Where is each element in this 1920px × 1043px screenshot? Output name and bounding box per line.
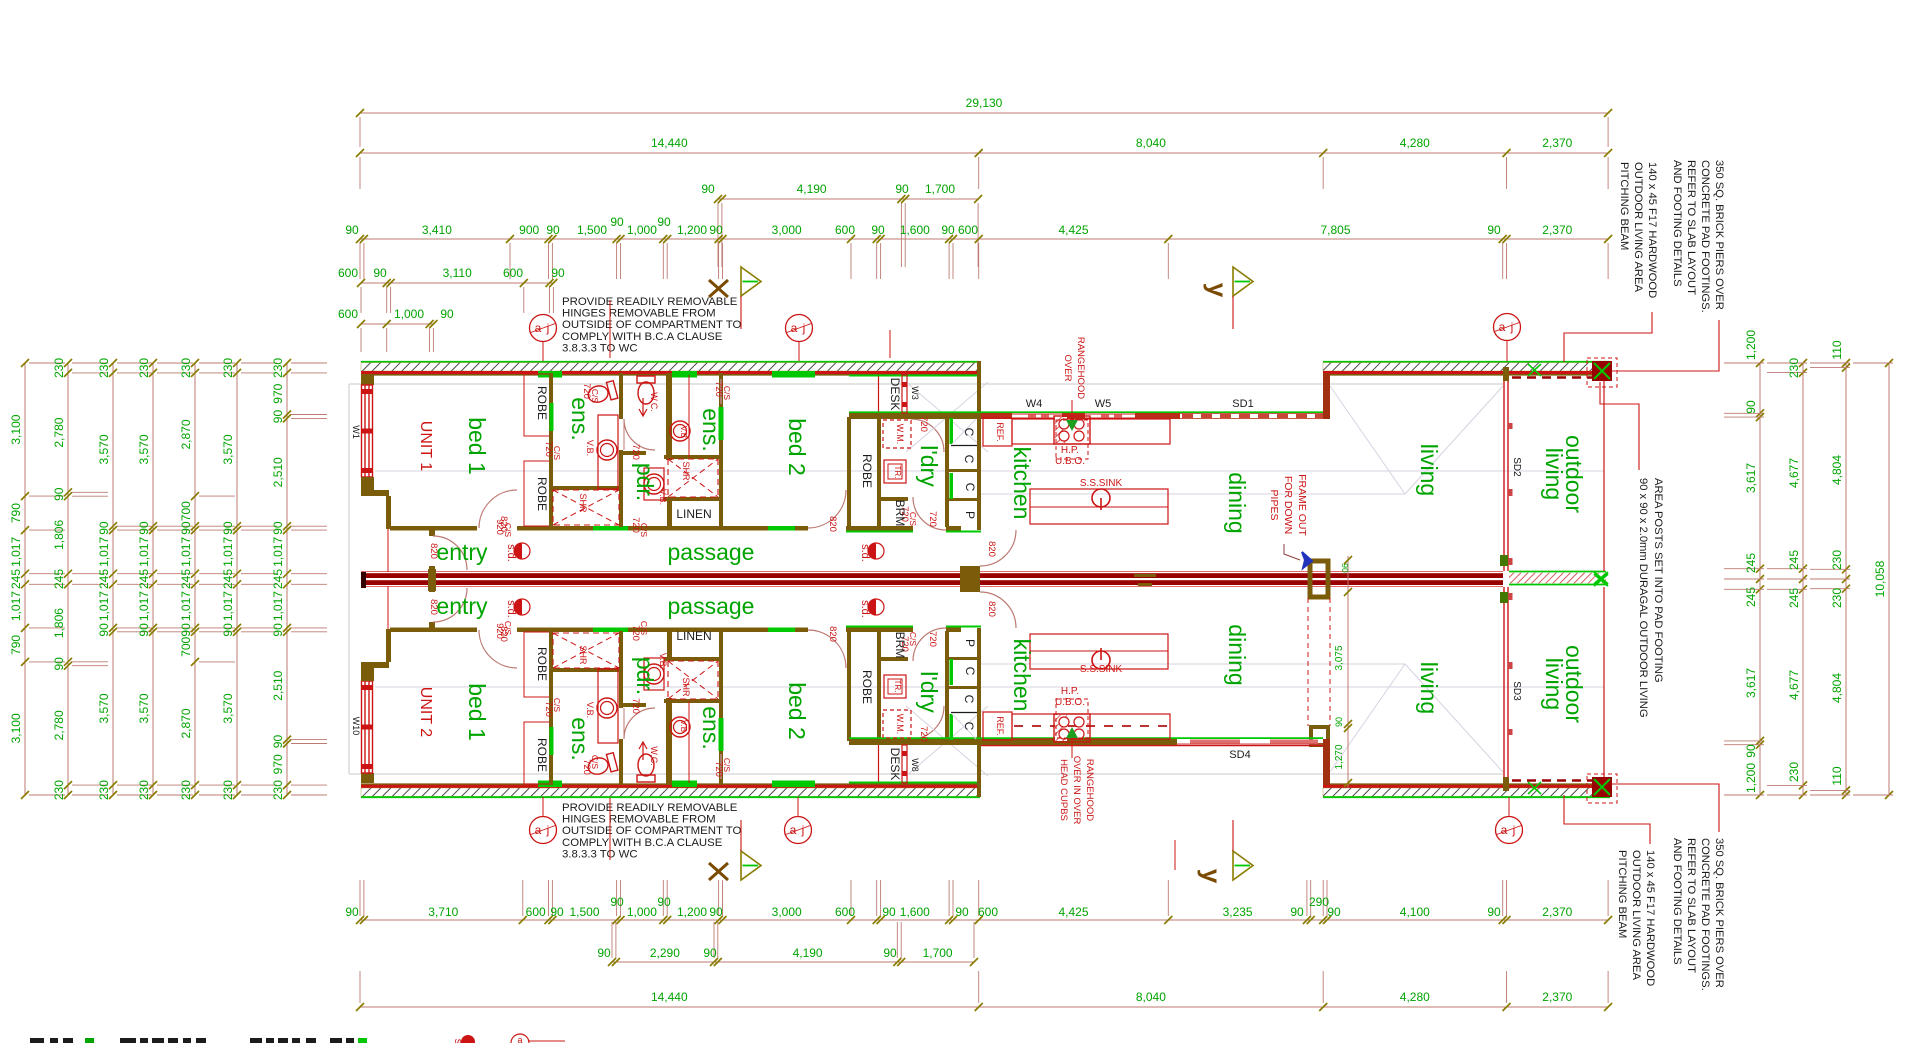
svg-text:4,100: 4,100	[1400, 905, 1430, 919]
living corner wall	[1323, 373, 1330, 419]
top exterior wall living/outdoor section	[1323, 362, 1610, 375]
section flag top X	[741, 267, 761, 296]
svg-text:600: 600	[526, 905, 546, 919]
svg-text:HINGES REMOVABLE FROM: HINGES REMOVABLE FROM	[562, 814, 716, 826]
passage wall seg1	[517, 526, 808, 531]
wall shr2 top (unit2)	[664, 699, 722, 703]
shower ens1	[553, 490, 619, 525]
cooktop (unit2)	[1054, 714, 1090, 742]
toilet ens1	[586, 384, 609, 405]
svg-text:UNIT 2: UNIT 2	[417, 687, 434, 737]
basin pdr (unit2)	[644, 664, 664, 684]
svg-text:s.d.: s.d.	[859, 544, 871, 562]
svg-text:90: 90	[546, 223, 560, 237]
svg-text:3,235: 3,235	[1223, 905, 1253, 919]
kitchen north wall	[849, 412, 1330, 419]
passage wall seg0	[390, 526, 477, 531]
svg-text:600: 600	[503, 266, 523, 280]
svg-text:90: 90	[345, 223, 359, 237]
robe1 lower box (unit2)	[524, 632, 552, 697]
svg-text:l'dry: l'dry	[916, 671, 942, 713]
window bar bottom wall A	[538, 781, 562, 788]
svg-text:90: 90	[221, 623, 235, 637]
svg-text:V.B.: V.B.	[585, 702, 595, 718]
svg-text:90: 90	[271, 410, 285, 424]
passage wall green bar A	[593, 526, 628, 531]
entry threshold	[387, 529, 389, 572]
leader 350SQ top	[1612, 320, 1719, 371]
svg-text:OVER: OVER	[1062, 355, 1073, 382]
rangehood dashed	[1056, 420, 1088, 459]
desk left edge (unit2)	[878, 745, 880, 784]
vanity counter pdr	[644, 468, 664, 500]
svg-text:1,200: 1,200	[1744, 330, 1758, 360]
svg-text:3,570: 3,570	[137, 693, 151, 723]
entry door arc (unit2)	[433, 588, 467, 622]
svg-text:790: 790	[9, 635, 23, 655]
window bar bottom wall B	[672, 781, 697, 788]
svg-text:V.B: V.B	[679, 426, 688, 438]
svg-text:245: 245	[1744, 587, 1758, 607]
svg-text:14,440: 14,440	[651, 136, 688, 150]
passage wall green bar B	[768, 526, 795, 531]
svg-text:3,710: 3,710	[428, 905, 458, 919]
shower ens2	[668, 459, 718, 497]
trough TR (unit2)	[884, 675, 906, 698]
svg-text:8,040: 8,040	[1136, 136, 1166, 150]
svg-text:290: 290	[1309, 895, 1329, 909]
svg-text:TR.: TR.	[893, 680, 902, 693]
wall shr1 top	[549, 486, 623, 490]
cupb thin divider (unit2)	[951, 712, 977, 714]
wall wc/ens2	[666, 373, 672, 460]
svg-text:C/S: C/S	[908, 512, 918, 527]
entry door jambs (unit2)	[429, 622, 435, 629]
svg-text:1,600: 1,600	[900, 905, 930, 919]
dim row 600/90/3,110/600/90	[338, 266, 565, 313]
wall cupb divider2	[949, 498, 981, 501]
svg-text:ROBE: ROBE	[535, 647, 549, 681]
svg-text:1,200: 1,200	[677, 905, 707, 919]
right dim col 1	[1724, 330, 1764, 799]
svg-text:90: 90	[1334, 717, 1344, 727]
svg-text:1,017: 1,017	[271, 537, 285, 567]
svg-text:COMPLY WITH B.C.A CLAUSE: COMPLY WITH B.C.A CLAUSE	[562, 331, 723, 343]
svg-text:1,017: 1,017	[9, 537, 23, 567]
entry door arc	[433, 536, 467, 570]
svg-text:230: 230	[1787, 762, 1801, 782]
svg-text:C/S: C/S	[552, 446, 562, 461]
svg-text:90: 90	[52, 487, 66, 501]
shower ens2 (unit2)	[668, 661, 718, 699]
svg-text:REF.: REF.	[995, 716, 1005, 736]
passage wall seg1 (unit2)	[517, 628, 808, 633]
sink	[1092, 489, 1110, 507]
svg-text:4,425: 4,425	[1058, 905, 1088, 919]
band green inner line desk	[849, 375, 980, 377]
svg-text:245: 245	[179, 569, 193, 589]
svg-text:90: 90	[882, 905, 896, 919]
svg-text:a: a	[517, 1035, 522, 1043]
rangehood leader	[1071, 400, 1073, 424]
left exterior wall lower (unit2)	[361, 662, 374, 681]
svg-text:PROVIDE READILY REMOVABLE: PROVIDE READILY REMOVABLE	[562, 296, 738, 308]
bed2 door arc (unit2)	[808, 630, 846, 668]
svg-text:245: 245	[1787, 550, 1801, 570]
svg-text:245: 245	[52, 569, 66, 589]
svg-text:700: 700	[179, 501, 193, 521]
left dim col 4	[137, 358, 193, 801]
svg-text:2,870: 2,870	[179, 708, 193, 738]
svg-text:230: 230	[1787, 358, 1801, 378]
svg-text:230: 230	[1830, 588, 1844, 608]
svg-text:a: a	[1501, 823, 1508, 837]
svg-text:970: 970	[271, 754, 285, 774]
sink (unit2)	[1092, 651, 1110, 669]
svg-text:2,370: 2,370	[1542, 136, 1572, 150]
dim row 90/2,290/90/4,190/90/1,700	[597, 922, 978, 966]
left dim col 3	[97, 358, 153, 801]
living right wall SD (unit2)	[1500, 587, 1513, 791]
svg-text:230: 230	[179, 358, 193, 378]
svg-text:W.M.: W.M.	[895, 714, 905, 735]
aj marker top-mid	[786, 315, 813, 342]
dim row small bottom	[345, 880, 1612, 924]
passage wall green edge cupb (unit2)	[946, 626, 981, 628]
outdoor beam dashes	[1512, 376, 1592, 379]
passage wall seg3 (unit2)	[946, 628, 961, 633]
svg-text:90: 90	[271, 623, 285, 637]
svg-text:C/S: C/S	[722, 386, 732, 401]
svg-text:AREA POSTS SET INTO PAD FOOTIN: AREA POSTS SET INTO PAD FOOTING	[1652, 478, 1664, 683]
svg-text:1,806: 1,806	[52, 520, 66, 550]
passage wall green edge robe2 (unit2)	[846, 626, 913, 628]
svg-text:W1: W1	[351, 425, 361, 439]
svg-text:2,870: 2,870	[179, 419, 193, 449]
band green X mark (unit2)	[1528, 782, 1541, 794]
svg-text:90: 90	[550, 905, 564, 919]
svg-text:90: 90	[137, 623, 151, 637]
left dim col 7	[271, 358, 327, 801]
svg-text:j: j	[1512, 823, 1516, 837]
smoke detector s.d.	[514, 599, 530, 615]
svg-text:790: 790	[9, 503, 23, 523]
cupboard green bars (unit2)	[950, 659, 954, 740]
svg-text:PROVIDE READILY REMOVABLE: PROVIDE READILY REMOVABLE	[562, 802, 738, 814]
svg-text:j: j	[546, 823, 550, 837]
svg-text:90: 90	[1744, 400, 1758, 414]
trough TR	[884, 460, 906, 483]
svg-text:720: 720	[927, 631, 938, 647]
passage wall green bar A (unit2)	[593, 628, 628, 633]
dim row 90/4,190/90/1,700	[701, 182, 982, 267]
svg-text:OUTSIDE OF COMPARTMENT TO: OUTSIDE OF COMPARTMENT TO	[562, 825, 741, 837]
left exterior wall upper (unit2)	[361, 773, 374, 783]
left exterior wall lower	[361, 477, 374, 496]
svg-text:1,700: 1,700	[923, 946, 953, 960]
island bench	[1030, 489, 1168, 524]
svg-text:j: j	[801, 823, 805, 837]
basin ens1 (unit2)	[597, 698, 617, 718]
bottom exterior wall left section	[361, 784, 980, 797]
svg-text:S.S.SINK: S.S.SINK	[1080, 478, 1123, 489]
svg-text:j: j	[802, 321, 806, 335]
svg-text:HINGES REMOVABLE FROM: HINGES REMOVABLE FROM	[562, 308, 716, 320]
svg-text:bed 2: bed 2	[784, 682, 810, 740]
svg-text:4,280: 4,280	[1400, 136, 1430, 150]
svg-text:pdr.: pdr.	[632, 463, 658, 501]
overhead cupboards dashes (unit2)	[1014, 725, 1168, 727]
svg-text:90: 90	[52, 657, 66, 671]
svg-text:RANGEHOOD: RANGEHOOD	[1084, 759, 1095, 821]
svg-text:90: 90	[551, 266, 565, 280]
smoke detector s.d.	[868, 599, 884, 615]
svg-text:1,700: 1,700	[925, 182, 955, 196]
wall bed2/robe2 (unit2)	[847, 631, 851, 741]
svg-text:245: 245	[1787, 588, 1801, 608]
svg-text:3,100: 3,100	[9, 713, 23, 743]
svg-text:BRM: BRM	[893, 632, 907, 659]
entry jog wall vertical	[386, 496, 391, 529]
passage wall green bar B (unit2)	[768, 628, 795, 633]
svg-text:3,617: 3,617	[1744, 463, 1758, 493]
outdoor right edge	[1603, 375, 1605, 571]
svg-text:600: 600	[835, 905, 855, 919]
svg-text:ROBE: ROBE	[535, 386, 549, 420]
svg-text:passage: passage	[668, 539, 755, 565]
wall wc/ens2 (unit2)	[666, 698, 672, 785]
kitchen door arc (unit2)	[980, 592, 1016, 628]
svg-text:2,370: 2,370	[1542, 223, 1572, 237]
svg-text:230: 230	[137, 780, 151, 800]
wall pdr bottom (unit2)	[621, 703, 646, 707]
party wall end cap	[361, 572, 366, 588]
svg-text:living: living	[1541, 658, 1567, 710]
svg-text:230: 230	[97, 780, 111, 800]
wall cupb divider (unit2)	[949, 686, 981, 689]
svg-text:90: 90	[895, 182, 909, 196]
passage wall seg2 (unit2)	[846, 628, 913, 633]
svg-text:s.d.: s.d.	[505, 544, 517, 562]
entry door jambs	[429, 529, 435, 536]
svg-text:8,040: 8,040	[1136, 990, 1166, 1004]
svg-text:720: 720	[630, 444, 641, 460]
svg-text:1,017: 1,017	[179, 591, 193, 621]
svg-text:3,570: 3,570	[97, 434, 111, 464]
wc arrow	[639, 398, 647, 416]
svg-text:1,017: 1,017	[137, 537, 151, 567]
kitchen counter	[1012, 419, 1170, 444]
svg-text:4,677: 4,677	[1787, 458, 1801, 488]
outdoor corner post	[1587, 358, 1617, 387]
svg-text:TR.: TR.	[893, 466, 902, 479]
wall pdr bottom	[621, 451, 646, 455]
right dim col 3	[1810, 340, 1850, 799]
svg-text:entry: entry	[436, 593, 488, 619]
svg-text:j: j	[546, 321, 550, 335]
svg-text:V.B.: V.B.	[585, 440, 595, 456]
robe1 lower box	[524, 461, 552, 526]
svg-text:1,000: 1,000	[394, 307, 424, 321]
svg-text:90: 90	[597, 946, 611, 960]
svg-text:ens.: ens.	[567, 397, 593, 440]
svg-text:720: 720	[630, 698, 641, 714]
toilet pdr (unit2)	[638, 754, 654, 776]
toilet ens1 (unit2)	[586, 756, 609, 777]
party wall	[361, 572, 1503, 587]
wall robe2/wm	[877, 417, 881, 527]
kitchen counter (unit2)	[1012, 714, 1170, 739]
entry jog wall horizontal (unit2)	[361, 662, 389, 668]
basin ens2 (unit2)	[670, 717, 690, 737]
right dim col total 10,058	[1853, 359, 1893, 799]
svg-text:FOR DOWN: FOR DOWN	[1282, 476, 1294, 534]
svg-text:90: 90	[271, 735, 285, 749]
svg-text:a: a	[791, 321, 798, 335]
bed2 wall window line (unit2)	[720, 754, 722, 779]
svg-text:2,290: 2,290	[650, 946, 680, 960]
svg-text:230: 230	[221, 358, 235, 378]
svg-text:U.B.O.: U.B.O.	[1055, 697, 1085, 708]
svg-text:1,806: 1,806	[52, 608, 66, 638]
svg-text:s.d.: s.d.	[505, 600, 517, 618]
svg-text:90: 90	[709, 223, 723, 237]
svg-text:820: 820	[986, 601, 997, 617]
ldry door arc (unit2)	[913, 628, 946, 661]
outdoor corner post (unit2)	[1587, 774, 1617, 803]
pdr top door arc (unit2)	[624, 708, 655, 739]
robe1 slider green	[550, 403, 554, 431]
svg-text:OUTDOOR LIVING AREA: OUTDOOR LIVING AREA	[1630, 850, 1642, 980]
bed2 wall green bar (unit2)	[719, 718, 724, 751]
svg-text:90: 90	[610, 215, 624, 229]
svg-text:90: 90	[1340, 563, 1350, 573]
interior dim chain living	[1334, 556, 1352, 788]
svg-text:90: 90	[941, 223, 955, 237]
svg-text:90: 90	[1744, 744, 1758, 758]
svg-text:4,804: 4,804	[1830, 455, 1844, 485]
window bar top wall B	[672, 371, 697, 378]
svg-text:110: 110	[1830, 766, 1844, 785]
svg-text:4,280: 4,280	[1400, 990, 1430, 1004]
left dim col 6	[221, 358, 277, 801]
svg-text:y: y	[1203, 283, 1233, 298]
svg-text:3,617: 3,617	[1744, 668, 1758, 698]
robe1 upper box (unit2)	[524, 722, 552, 784]
svg-text:V.B: V.B	[679, 720, 688, 732]
svg-text:SD3: SD3	[1511, 681, 1522, 701]
washing machine (unit2)	[883, 710, 911, 738]
wall robe1/ens (unit2)	[549, 631, 553, 785]
washing machine	[883, 420, 911, 448]
svg-text:s.d.: s.d.	[859, 600, 871, 618]
wall kitchen/passage	[977, 361, 981, 419]
svg-text:UNIT 1: UNIT 1	[417, 421, 434, 471]
svg-text:90: 90	[97, 623, 111, 637]
svg-text:1,017: 1,017	[97, 591, 111, 621]
svg-text:living: living	[1416, 444, 1442, 496]
bed2 wall window line	[720, 379, 722, 404]
outdoor beam dashes (unit2)	[1512, 779, 1592, 782]
svg-text:90: 90	[657, 895, 671, 909]
toilet pdr	[638, 382, 654, 404]
svg-text:y: y	[1197, 869, 1227, 884]
aj marker bottom-left	[530, 817, 557, 844]
svg-text:29,130: 29,130	[966, 96, 1003, 110]
svg-text:3,075: 3,075	[1334, 645, 1345, 670]
svg-text:90: 90	[610, 895, 624, 909]
svg-text:110: 110	[1830, 340, 1844, 359]
entry threshold (unit2)	[387, 586, 389, 629]
svg-text:ROBE: ROBE	[535, 738, 549, 772]
aj marker top-right	[1494, 314, 1521, 341]
aj marker bottom-mid	[785, 817, 812, 844]
svg-text:OUTSIDE OF COMPARTMENT TO: OUTSIDE OF COMPARTMENT TO	[562, 319, 741, 331]
svg-text:ROBE: ROBE	[535, 477, 549, 511]
svg-text:j: j	[1510, 320, 1514, 334]
wall robe2/wm (unit2)	[877, 631, 881, 741]
svg-text:4,425: 4,425	[1058, 223, 1088, 237]
passage wall green edge robe2	[846, 531, 913, 533]
wall cupb divider	[949, 469, 981, 472]
svg-text:600: 600	[835, 223, 855, 237]
rangehood leader (unit2)	[1071, 734, 1073, 758]
section flag bottom y	[1233, 851, 1253, 880]
svg-text:820: 820	[827, 516, 838, 532]
basin pdr	[644, 474, 664, 494]
svg-text:SHR: SHR	[578, 493, 588, 513]
dim row 600/1,000/90	[338, 307, 454, 352]
refrigerator	[983, 418, 1012, 446]
bed2 door arc	[808, 490, 846, 528]
svg-text:OVER IN OVER: OVER IN OVER	[1071, 756, 1082, 825]
aj marker top-left	[530, 315, 557, 342]
svg-text:2,510: 2,510	[271, 457, 285, 487]
window W1 band (unit2)	[362, 681, 373, 773]
svg-text:AND FOOTING DETAILS: AND FOOTING DETAILS	[1671, 160, 1683, 287]
kitchen door arc	[980, 530, 1016, 566]
svg-text:90: 90	[373, 266, 387, 280]
wall brm top	[881, 497, 908, 501]
bottom exterior wall living/outdoor section	[1323, 784, 1610, 797]
leader 140x45 bottom	[1564, 795, 1650, 844]
svg-text:living: living	[1416, 662, 1442, 714]
svg-text:4,677: 4,677	[1787, 670, 1801, 700]
svg-text:90: 90	[137, 521, 151, 535]
ldry top door arc (unit2)	[911, 706, 944, 739]
svg-text:OUTDOOR LIVING AREA: OUTDOOR LIVING AREA	[1632, 162, 1644, 292]
svg-text:3,000: 3,000	[772, 223, 802, 237]
svg-text:90: 90	[955, 905, 969, 919]
svg-text:1,017: 1,017	[9, 591, 23, 621]
svg-text:REF.: REF.	[995, 422, 1005, 442]
wall ens/pdr	[619, 373, 623, 419]
note leader top2	[889, 330, 891, 358]
window bar top wall A	[538, 371, 562, 378]
svg-text:3,110: 3,110	[443, 266, 472, 280]
wc arrow (unit2)	[639, 742, 647, 760]
svg-text:SHR: SHR	[681, 677, 691, 697]
svg-text:PITCHING BEAM: PITCHING BEAM	[1616, 850, 1628, 938]
left dim col 2	[52, 358, 108, 801]
svg-text:LINEN: LINEN	[676, 629, 711, 643]
svg-text:1,000: 1,000	[627, 223, 657, 237]
svg-text:3,570: 3,570	[221, 434, 235, 464]
cupboard green bars	[950, 418, 954, 499]
svg-text:C/S: C/S	[722, 758, 732, 773]
svg-text:P: P	[963, 511, 977, 519]
wall shr2 top	[664, 455, 722, 459]
